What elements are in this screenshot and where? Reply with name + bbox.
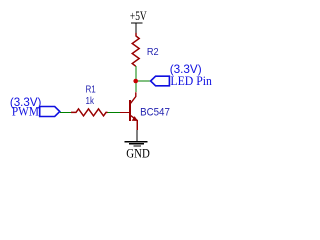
base bar [129, 100, 131, 121]
wire junction to collector [135, 81, 137, 92]
svg-text:R1: R1 [86, 83, 96, 95]
svg-text:+5V: +5V [130, 8, 147, 23]
emitter lead [136, 120, 138, 130]
emitter arrow [132, 116, 138, 121]
wire R2 to junction [135, 66, 137, 81]
port PWM [40, 107, 60, 117]
ground bars [125, 141, 148, 143]
resistor R2 [132, 33, 139, 66]
wire PWM to R1 [60, 112, 71, 114]
svg-text:PWM: PWM [12, 105, 39, 119]
ground lead wire [136, 130, 138, 141]
svg-text:R2: R2 [147, 46, 159, 58]
svg-text:LED Pin: LED Pin [170, 73, 212, 88]
resistor R1 [71, 109, 108, 116]
collector pin [130, 92, 136, 104]
power bar [131, 22, 143, 24]
svg-text:BC547: BC547 [140, 107, 170, 119]
power lead wire [135, 23, 137, 33]
transistor Q1 BC547 [120, 92, 138, 130]
svg-text:1k: 1k [86, 95, 95, 107]
power +5V [130, 8, 147, 33]
base pin [120, 112, 129, 114]
port LED Pin [151, 76, 170, 86]
emitter pin [130, 115, 138, 121]
svg-text:GND: GND [126, 147, 150, 161]
wire R1 to base [108, 112, 121, 114]
junction dot [133, 79, 138, 84]
wire junction to LED port [136, 80, 151, 82]
ground [125, 130, 150, 160]
